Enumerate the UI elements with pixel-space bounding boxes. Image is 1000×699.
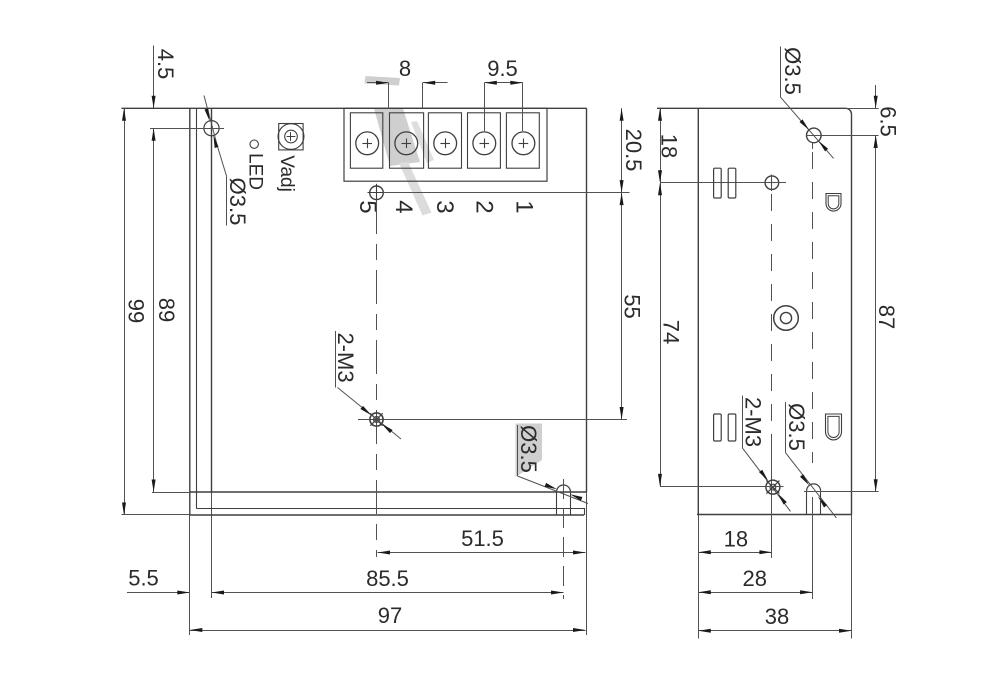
extension of case bottom to the left [152,492,190,494]
diameter 3.5 leader top right view [781,98,834,159]
diameter 3.5 leader top-left [204,96,218,147]
side hole vertical centerline tick [771,175,773,192]
hole centerline horizontal [150,128,224,130]
extension right edge down [851,515,853,639]
2-M3 mounting screw left view [370,413,383,426]
dashed centerline through left view [376,200,378,557]
extension of bracket bottom to the left [122,514,190,516]
terminal cell 5 [350,113,382,168]
diameter 3.5 label bottom right view [785,402,787,453]
right view left edge [697,108,699,514]
svg-text:87: 87 [874,305,899,329]
extension line case left down [211,492,213,598]
svg-text:2-M3: 2-M3 [740,397,765,447]
dashed centerline bottom-right hole [563,479,565,599]
pin 5 chassis hole [370,186,384,200]
svg-text:28: 28 [743,566,767,591]
svg-text:38: 38 [765,604,789,629]
bracket screw right view [766,480,780,494]
dimension 51.5 [378,552,586,554]
right view right edge [851,114,853,514]
diameter 3.5 leader bottom-right [518,476,589,504]
watermark patch behind lower diameter label [516,424,543,478]
svg-text:4: 4 [390,200,417,213]
dimension 28 [698,592,812,594]
dimension 97 [190,630,586,632]
left view bracket bend line [196,108,198,508]
svg-text:74: 74 [658,320,683,344]
extension line through bracket screw [660,486,784,488]
left view bracket bottom bend line [196,508,584,510]
svg-text:18: 18 [724,527,748,552]
dashed centerline right view right column [812,152,814,463]
2-M3 label left view [335,331,337,388]
left view case bottom edge [190,491,587,493]
extension line from pin5 hole to right [383,192,630,194]
lower D-hole outer [826,414,842,440]
right view rounded corner [846,108,852,114]
top-left mounting hole [204,121,219,136]
bottom-right hole arch left view [557,485,571,492]
svg-text:1: 1 [511,200,538,213]
svg-text:51.5: 51.5 [461,526,504,551]
centerline extension to 18 dim [771,450,773,558]
terminal cell 2 [468,113,501,168]
left view top edge [122,107,587,109]
terminal screw 2 [473,132,496,155]
LED indicator [250,140,258,148]
2-M3 leader line [338,388,402,440]
watermark smudge below terminals [399,162,432,216]
extension line bottom hole down to 28 dim [812,497,814,599]
lower D-hole inner [828,416,839,437]
bracket bottom right step [584,508,586,515]
diameter 3.5 label top-left [226,177,228,226]
dimension 87 [875,135,877,491]
diameter 3.5 leader bottom right view [786,453,837,518]
dimension 18 vertical [660,108,662,182]
watermark smudge terminal cell 4 [374,109,420,167]
dimension 38 [698,630,851,632]
bottom hole arch right view [807,484,821,491]
svg-text:LED: LED [244,153,265,190]
upper D-hole inner [828,196,839,209]
svg-text:55: 55 [619,294,644,318]
dimension 99 [124,108,126,515]
terminal cell 3 [428,113,461,168]
terminal screw 5 [356,132,379,155]
right view bottom edge [697,514,852,516]
svg-text:Vadj: Vadj [276,155,297,192]
svg-text:89: 89 [154,298,179,322]
svg-text:9.5: 9.5 [487,56,518,81]
svg-text:3: 3 [431,200,458,213]
terminal block outer box [344,108,547,181]
dimension 74 [660,183,662,487]
watermark streak cell 3 [411,121,434,163]
svg-text:99: 99 [123,299,148,323]
extension line bottom hole to 87 dim [804,491,879,493]
vent slot lower left [714,414,722,441]
terminal screw 3 [434,132,457,155]
dimension 6.5 [875,85,877,108]
upper D-hole outer [826,194,841,212]
terminal cell 1 [506,113,539,168]
right view top edge [657,107,846,109]
Vadj potentiometer [279,124,303,150]
dimension 5.5 [127,592,190,594]
dimension 20.5 [621,108,623,192]
svg-text:2: 2 [470,200,497,213]
2-M3 label right view [742,396,744,449]
svg-text:18: 18 [656,134,681,158]
dimension 8 [367,82,389,84]
dimension 18 bottom [698,552,772,554]
dimension 4.5 [153,46,155,109]
extension left edge down [698,515,700,639]
svg-text:2-M3: 2-M3 [333,332,358,382]
svg-text:6.5: 6.5 [875,106,900,137]
2-M3 leader right view [743,449,791,512]
center grommet ring [774,306,799,331]
diameter 3.5 label top right view [780,47,782,98]
extension line case right down [586,492,588,635]
left view bracket bottom edge [190,514,584,516]
extension line bracket left down [189,515,191,635]
dimension 55 [621,193,623,420]
diameter 3.5 label bottom-right left view [517,425,519,476]
left view bracket left edge [189,108,191,515]
dimension 9.5 [484,82,523,84]
dimension 89 [153,128,155,492]
svg-text:8: 8 [399,56,411,81]
terminal screw 4 [395,132,418,155]
hole centerline to 6.5 dimension [806,135,879,137]
dimension 85.5 [212,592,564,594]
left view case right edge [586,108,588,492]
left view case left edge [211,108,213,492]
watermark smudge upper [365,76,401,86]
svg-text:20.5: 20.5 [621,129,646,172]
terminal cell 4 [390,113,424,168]
vent slot lower right [728,414,736,441]
svg-text:85.5: 85.5 [366,566,409,591]
svg-text:Ø3.5: Ø3.5 [784,403,809,451]
svg-text:Ø3.5: Ø3.5 [780,47,805,95]
vent slot upper right [728,168,736,198]
extension line through 2-M3 screw to right [358,419,627,421]
top mounting hole right view [807,128,822,143]
svg-text:Ø3.5: Ø3.5 [516,425,541,473]
terminal screw 1 [512,132,535,155]
vent slot upper left [714,168,722,198]
svg-text:5.5: 5.5 [128,566,159,591]
dashed centerline right view hole column [771,194,773,450]
extension of top edge to the right [846,108,879,110]
side pin hole right view [765,176,779,190]
svg-text:4.5: 4.5 [153,49,178,80]
extension line through side hole [660,182,786,184]
svg-text:97: 97 [378,603,402,628]
